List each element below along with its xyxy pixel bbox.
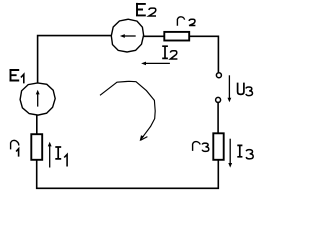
label r2 — [177, 17, 195, 26]
terminal (bottom, open) — [216, 97, 221, 102]
I2 current arrow (left) — [144, 62, 170, 64]
label I3 — [237, 145, 253, 159]
wire: r2 box right to top-right corner and down to terminal — [190, 36, 219, 72]
E2 internal arrow (left) — [123, 35, 136, 37]
loop direction arrow (hand-drawn, clockwise) — [100, 81, 155, 140]
label r3 — [193, 142, 209, 152]
terminal (top, open) — [216, 73, 221, 78]
I1 current arrow (up) — [49, 144, 51, 167]
E1 internal arrow (up) — [37, 92, 39, 107]
label U3 — [238, 83, 253, 96]
I3 current arrow (down) — [229, 139, 231, 165]
U3 voltage arrow (down) — [228, 75, 230, 100]
source E1 (circle, hand-drawn) — [20, 83, 55, 115]
source E2 (circle, hand-drawn) — [111, 19, 143, 52]
wire: r3 bottom, bottom-right corner, bottom wire, up to r1 bottom — [37, 160, 219, 188]
wire: E2 circle right to r2 box — [144, 35, 165, 37]
resistor R2 (box) — [164, 32, 189, 41]
wire: r1 top up to E1 circle bottom — [36, 115, 38, 134]
label E2 — [136, 3, 156, 16]
wire: bottom terminal down to r3 box — [217, 103, 219, 134]
label I2 — [162, 46, 177, 59]
label I1 — [55, 147, 67, 167]
label r1 — [11, 140, 19, 156]
resistor R3 (box) — [213, 133, 223, 160]
label E1 — [10, 69, 24, 83]
wire top-left: from E1 circle top up and right to E2 circle — [38, 36, 112, 83]
resistor R1 (box) — [31, 134, 42, 160]
